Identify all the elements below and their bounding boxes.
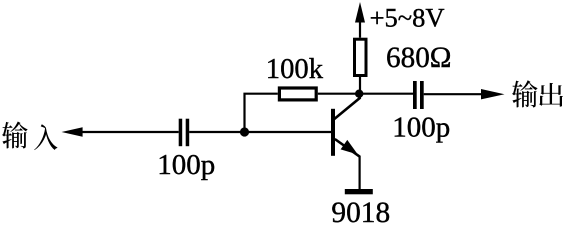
svg-text:+5~8V: +5~8V bbox=[370, 2, 445, 32]
svg-text:100p: 100p bbox=[392, 112, 450, 144]
svg-text:100k: 100k bbox=[266, 54, 324, 85]
svg-text:680Ω: 680Ω bbox=[386, 42, 451, 74]
svg-text:100p: 100p bbox=[157, 149, 215, 181]
svg-text:9018: 9018 bbox=[331, 197, 390, 228]
